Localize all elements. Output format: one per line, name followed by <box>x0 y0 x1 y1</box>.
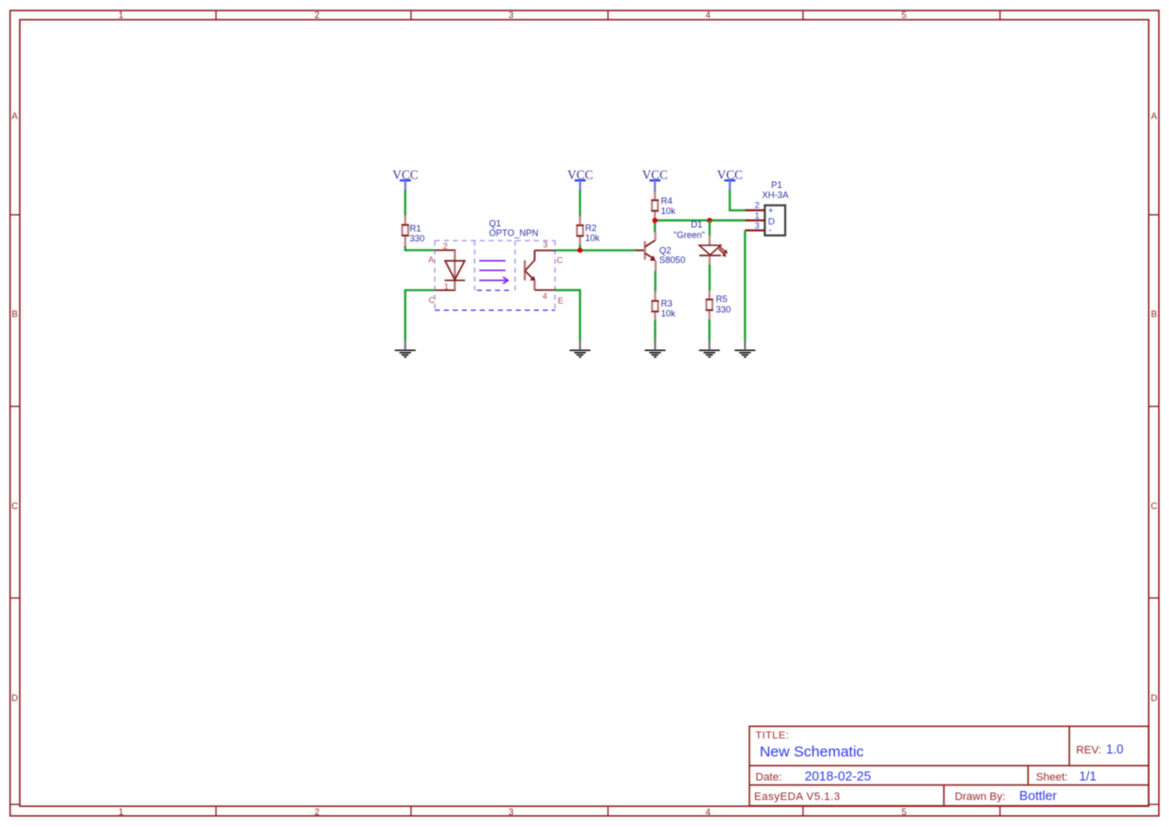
opto pin 3 lead <box>535 249 555 251</box>
P1 pin names <box>768 205 775 236</box>
svg-text:+: + <box>768 205 774 216</box>
svg-text:A: A <box>1151 111 1157 121</box>
title block <box>749 726 1148 806</box>
svg-text:10k: 10k <box>661 308 676 318</box>
frame row ticks right <box>1149 215 1159 598</box>
opto LED vertical <box>454 250 456 290</box>
LED D1 <box>674 220 728 266</box>
resistor R3 <box>652 292 676 321</box>
P1 pin 3 lead <box>745 229 765 231</box>
svg-text:B: B <box>12 309 18 319</box>
title block text <box>754 730 1123 803</box>
wire opto pin1 to ground <box>405 290 434 340</box>
svg-text:3: 3 <box>755 220 760 230</box>
junction node R2/base <box>577 248 582 253</box>
wire junction R4 to P1 pin1 <box>655 219 746 221</box>
opto arrows <box>479 261 508 284</box>
svg-text:R1: R1 <box>410 224 422 234</box>
wire opto pin4 to ground <box>555 290 580 340</box>
opto pin 2 lead <box>435 249 456 251</box>
svg-text:"Green": "Green" <box>674 230 705 240</box>
svg-text:Q1: Q1 <box>489 218 501 228</box>
svg-text:P1: P1 <box>771 180 782 190</box>
frame column ticks top <box>216 11 1000 20</box>
frame band closure right <box>1149 803 1159 805</box>
svg-text:1: 1 <box>118 10 123 20</box>
resistor R2 <box>576 216 600 246</box>
svg-text:5: 5 <box>901 807 906 817</box>
svg-text:B: B <box>1151 309 1157 319</box>
svg-text:EasyEDA V5.1.3: EasyEDA V5.1.3 <box>754 791 840 803</box>
svg-text:C: C <box>12 501 19 511</box>
svg-text:OPTO_NPN: OPTO_NPN <box>489 228 538 238</box>
power flag VCC net 4 <box>717 168 743 191</box>
svg-text:XH-3A: XH-3A <box>762 190 789 200</box>
svg-text:2: 2 <box>443 241 448 251</box>
svg-text:3: 3 <box>508 807 513 817</box>
opto pin 1 lead <box>435 289 456 291</box>
ground 5 <box>735 340 756 357</box>
junction node R4/collector <box>652 218 657 223</box>
frame column ticks bottom <box>216 806 1000 816</box>
opto phototransistor <box>525 250 536 290</box>
transistor Q2 <box>636 231 686 271</box>
svg-text:3: 3 <box>543 239 548 249</box>
power flag VCC net 2 <box>567 168 593 191</box>
svg-text:2018-02-25: 2018-02-25 <box>805 768 872 783</box>
svg-text:1/1: 1/1 <box>1079 770 1096 784</box>
wire R4 to Q2 collector <box>654 218 656 232</box>
svg-text:Q2: Q2 <box>659 245 671 255</box>
ground 3 <box>645 340 666 357</box>
svg-text:D: D <box>1151 693 1158 703</box>
svg-text:330: 330 <box>410 234 425 244</box>
svg-text:1.0: 1.0 <box>1106 742 1123 756</box>
svg-text:Drawn By:: Drawn By: <box>955 791 1006 803</box>
svg-text:E: E <box>558 295 564 305</box>
svg-text:Sheet:: Sheet: <box>1036 772 1068 784</box>
opto LED triangle <box>445 261 465 280</box>
svg-text:TITLE:: TITLE: <box>756 730 790 741</box>
svg-text:3: 3 <box>508 10 513 20</box>
wire D1 to R5 <box>708 265 710 291</box>
svg-text:Bottler: Bottler <box>1019 788 1057 803</box>
svg-text:4: 4 <box>705 10 710 20</box>
power flag VCC net 3 <box>642 168 668 191</box>
frame row letters left <box>12 111 19 703</box>
P1 pin 2 lead <box>745 209 765 211</box>
resistor R1 <box>402 216 425 247</box>
wire VCC2 to R2 <box>579 190 581 216</box>
connector P1 box <box>765 205 785 235</box>
frame row ticks left <box>10 215 20 598</box>
svg-text:R4: R4 <box>661 196 673 206</box>
svg-text:R5: R5 <box>716 294 728 304</box>
wire opto pin3 to Q2 base <box>555 249 636 251</box>
wire VCC3 to R4 <box>654 191 656 193</box>
wire R1 to opto pin2 <box>405 246 434 250</box>
svg-text:4: 4 <box>705 807 710 817</box>
frame column numbers top <box>118 10 906 20</box>
svg-text:2: 2 <box>314 10 319 20</box>
svg-text:2: 2 <box>314 807 319 817</box>
opto LED cathode bar <box>445 279 465 281</box>
opto-coupler U Q1 dashed box <box>435 241 555 311</box>
svg-text:A: A <box>12 111 18 121</box>
svg-text:5: 5 <box>901 10 906 20</box>
P1 pin numbers <box>755 200 760 230</box>
svg-text:D: D <box>12 693 19 703</box>
svg-text:4: 4 <box>543 291 548 301</box>
frame band closure left <box>10 803 20 805</box>
wire R5 to ground <box>708 320 710 341</box>
svg-text:R3: R3 <box>661 298 673 308</box>
frame column numbers bottom <box>118 807 906 817</box>
svg-text:1: 1 <box>118 807 123 817</box>
svg-text:C: C <box>557 255 563 265</box>
wire R3 to ground <box>654 320 656 340</box>
resistor R4 <box>651 191 676 219</box>
svg-text:-: - <box>769 225 772 236</box>
opto pin 4 lead <box>535 289 555 291</box>
svg-text:S8050: S8050 <box>659 255 685 265</box>
svg-text:REV:: REV: <box>1076 744 1101 756</box>
power flag VCC net 1 <box>393 168 419 191</box>
svg-text:R2: R2 <box>585 223 597 233</box>
wire P1 pin3 to ground <box>744 230 746 340</box>
ground 4 <box>699 340 720 357</box>
svg-text:A: A <box>428 255 434 265</box>
resistor R5 <box>706 290 731 320</box>
svg-text:2: 2 <box>755 200 760 210</box>
svg-text:1: 1 <box>444 281 449 291</box>
wire Q2 emitter to R3 <box>654 271 656 292</box>
svg-text:D1: D1 <box>691 220 703 230</box>
wire VCC4 to P1 pin2 <box>730 190 746 210</box>
P1 pin 1 lead <box>745 219 765 221</box>
svg-text:C: C <box>429 295 435 305</box>
svg-text:10k: 10k <box>661 206 676 216</box>
ground 2 <box>570 340 591 357</box>
svg-text:330: 330 <box>716 305 731 315</box>
svg-text:10k: 10k <box>585 233 600 243</box>
svg-text:C: C <box>1151 501 1158 511</box>
svg-text:Date:: Date: <box>756 771 782 783</box>
svg-text:New Schematic: New Schematic <box>760 743 865 760</box>
junction node D1 <box>707 218 712 223</box>
wire junction to D1 <box>708 220 710 236</box>
frame row letters right <box>1151 111 1158 703</box>
ground 1 <box>395 340 416 357</box>
wire R2 to junction <box>579 245 581 250</box>
wire VCC1 to R1 <box>404 190 406 216</box>
svg-text:1: 1 <box>755 211 760 221</box>
